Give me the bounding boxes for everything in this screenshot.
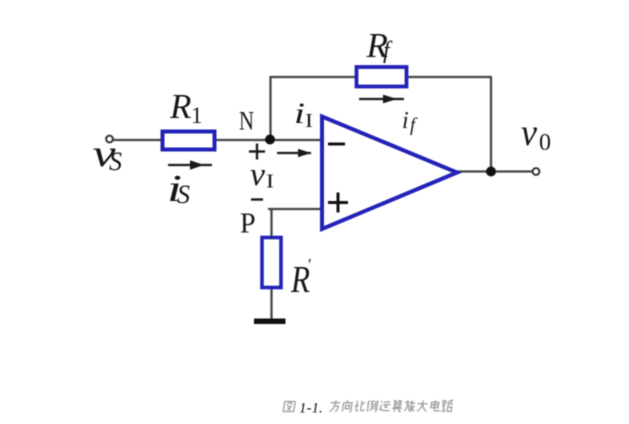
svg-text:1: 1 bbox=[191, 103, 203, 128]
wire op-amp output to terminal bbox=[455, 170, 533, 172]
caption: glyph yun4 (operation) bbox=[379, 401, 391, 411]
ground bbox=[254, 319, 286, 325]
resistor Rf bbox=[357, 67, 407, 87]
op-amp inverting sign bbox=[328, 143, 345, 146]
input terminal vs bbox=[106, 136, 113, 143]
plus polarity mark of vI bbox=[249, 150, 265, 152]
caption: glyph dian4 (electric) bbox=[430, 400, 441, 411]
output terminal vo bbox=[533, 168, 540, 175]
svg-text:i: i bbox=[402, 108, 409, 134]
wire P to op-amp noninverting input bbox=[268, 208, 324, 210]
wire R1 to node N bbox=[214, 139, 270, 141]
output node bbox=[486, 167, 496, 177]
caption: glyph da4 (big) bbox=[416, 401, 428, 412]
svg-text:N: N bbox=[239, 107, 254, 136]
wire R' to ground bbox=[270, 287, 272, 320]
caption: glyph bi3 (ratio) bbox=[354, 401, 366, 411]
svg-text:I: I bbox=[266, 171, 274, 193]
caption: glyph lu4 (circuit-road) bbox=[441, 400, 454, 411]
wire node N to op-amp inverting input bbox=[270, 139, 324, 141]
node N bbox=[265, 135, 275, 145]
svg-text:P: P bbox=[240, 209, 256, 240]
svg-text:I: I bbox=[305, 110, 313, 132]
resistor R1 bbox=[163, 132, 215, 150]
caption: glyph suan4 (calculate) bbox=[391, 400, 403, 412]
svg-text:1-1.: 1-1. bbox=[299, 401, 323, 417]
current arrow if under Rf bbox=[359, 98, 404, 100]
wire P node down to resistor R' bbox=[270, 208, 272, 238]
caption: glyph tu2 (figure) bbox=[283, 402, 295, 412]
svg-text:i: i bbox=[294, 97, 305, 130]
current arrow iI bbox=[277, 152, 311, 154]
caption: glyph fang4 (amplify-release) bbox=[404, 400, 416, 411]
caption: glyph li4 (example) bbox=[366, 400, 378, 411]
op-amp noninverting sign bbox=[328, 201, 348, 204]
wire node N up to feedback branch bbox=[269, 76, 271, 140]
feedback top wire bbox=[270, 76, 493, 78]
svg-text:R: R bbox=[169, 87, 191, 126]
wire feedback down to output node bbox=[490, 77, 492, 172]
svg-text:S: S bbox=[109, 147, 122, 176]
svg-text:′: ′ bbox=[308, 255, 312, 274]
svg-text:v: v bbox=[250, 157, 265, 193]
svg-text:S: S bbox=[177, 180, 190, 209]
minus polarity mark of vI bbox=[251, 198, 263, 200]
current arrow is bbox=[168, 164, 212, 166]
resistor R' bbox=[262, 238, 281, 288]
wire vs to R1 bbox=[112, 139, 163, 141]
svg-text:v: v bbox=[521, 112, 537, 154]
svg-text:0: 0 bbox=[539, 130, 551, 156]
caption: glyph xiang4 (toward) bbox=[342, 400, 352, 411]
op-amp U1 bbox=[322, 117, 457, 230]
caption: glyph fang1 (direction) bbox=[329, 400, 340, 411]
